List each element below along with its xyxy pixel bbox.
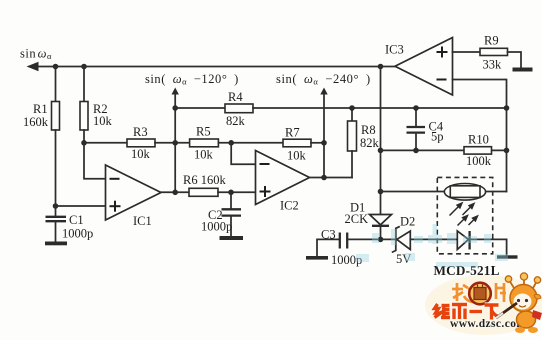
IC1 minus sign (110, 178, 120, 180)
weiku red text (435, 304, 499, 320)
IC1 plus sign (110, 205, 121, 207)
IC2 plus sign (260, 191, 271, 193)
node junction top wire / IC3 output (378, 64, 384, 70)
wire to R4 (175, 107, 225, 109)
resistor R7 (283, 139, 311, 147)
wire R6 right to IC2 + input (218, 191, 256, 193)
svg-text:33k: 33k (483, 58, 503, 72)
wire R4 right to IC3 inverting node (253, 107, 507, 109)
wire node down to IC1 - input (84, 143, 106, 179)
light arrows (450, 203, 478, 226)
svg-text:R5: R5 (196, 125, 211, 139)
node junction C4 bottom (413, 148, 419, 154)
svg-text:160k: 160k (23, 115, 49, 129)
node junction IC2 output / sin240 line (321, 175, 327, 181)
wire IC3 - input (453, 80, 507, 192)
node junction R5/R7/IC2- (228, 140, 234, 146)
svg-text:1000p: 1000p (201, 220, 232, 234)
svg-text:IC3: IC3 (385, 43, 404, 57)
wire R9 right to ground (508, 52, 522, 68)
svg-text:10k: 10k (131, 147, 151, 161)
node junction R7 right (321, 140, 327, 146)
IC3 minus sign (437, 79, 447, 81)
node sin wa output arrow (27, 62, 39, 72)
op-amp IC2 (256, 151, 310, 205)
pian char (496, 283, 506, 302)
svg-text:www.dzsc.com: www.dzsc.com (450, 318, 526, 330)
wire R5 right (218, 142, 283, 144)
node sin -120 arrow (172, 88, 179, 95)
svg-text:10k: 10k (194, 148, 214, 162)
svg-text:R10: R10 (468, 133, 489, 147)
node junction top wire / R1 (53, 64, 59, 70)
resistor R6 (189, 188, 218, 196)
svg-text:R6 160k: R6 160k (183, 173, 226, 187)
svg-text:82k: 82k (360, 136, 380, 150)
IC2 minus sign (260, 163, 270, 165)
capacitor C1 (55, 206, 57, 217)
node junction R2/R3/IC1- (81, 140, 87, 146)
svg-text:R4: R4 (228, 90, 243, 104)
svg-text:C3: C3 (321, 228, 336, 242)
wire sin -120 vertical node line (174, 94, 176, 193)
magnifier circle (469, 283, 491, 305)
wire IC3 output feedback vertical (380, 67, 382, 215)
capacitor C2 (230, 192, 232, 209)
node junction LDR left / feedback line (378, 189, 384, 195)
ground LED (497, 255, 518, 258)
svg-text:R8: R8 (361, 123, 376, 137)
zhao char (452, 283, 506, 302)
IC3 plus sign (437, 51, 448, 53)
resistor R8 (351, 108, 353, 121)
node junction R6/C2/IC2+ (228, 190, 234, 196)
wire LDR left (381, 191, 445, 193)
svg-text:10k: 10k (287, 149, 307, 163)
capacitor C3 (317, 239, 339, 256)
svg-text:R9: R9 (484, 34, 499, 48)
svg-text:D2: D2 (400, 215, 415, 229)
wire IC1 output (161, 191, 189, 193)
wire down to IC2 - input (231, 143, 255, 165)
wire R7 right to IC2 output node (311, 142, 324, 144)
node junction R10 right (504, 148, 510, 154)
op-amp IC3 (395, 38, 453, 96)
node junction C4 top (413, 105, 419, 111)
resistor R2 (80, 102, 88, 131)
node junction R1/C1/IC1+ (53, 203, 59, 209)
resistor R10 (464, 147, 492, 154)
node junction D1/C3/D2 (378, 237, 384, 243)
wire LDR right (486, 191, 507, 193)
ground C2 (220, 236, 244, 240)
capacitor C4 (415, 108, 417, 127)
ground C3 (306, 256, 328, 260)
svg-text:C1: C1 (69, 213, 84, 227)
ground R9 (513, 68, 533, 72)
wire sin -240 vertical node line (323, 94, 325, 178)
photoresistor LDR (444, 184, 485, 201)
node junction R4 left (172, 105, 178, 111)
wire R3 to R5 (155, 142, 190, 144)
resistor R3 (127, 139, 155, 147)
mascot (509, 280, 514, 288)
svg-text:IC2: IC2 (280, 199, 299, 213)
svg-text:IC1: IC1 (133, 214, 152, 228)
wire R2 top lead (83, 67, 85, 102)
LED (457, 231, 468, 250)
wire IC3 + input to R9 (453, 51, 481, 53)
resistor R4 (225, 104, 253, 113)
node junction R8 top (349, 105, 355, 111)
wire main top feedback line (33, 66, 395, 68)
wire R1 top lead (55, 67, 57, 102)
node junction feedback/C4-R10 wire (378, 148, 384, 154)
resistor R5 (190, 139, 219, 147)
wire C4 bottom / R10 left line (381, 149, 465, 151)
wire IC2 output (310, 177, 353, 179)
op-amp IC1 (106, 165, 162, 220)
resistor R1 (52, 102, 60, 131)
svg-text:R7: R7 (285, 126, 300, 140)
svg-text:sin( ωα −240° ): sin( ωα −240° ) (276, 72, 371, 87)
optocoupler dashed box MCD-521L (437, 177, 492, 253)
ground C1 (45, 242, 67, 246)
node junction IC3- / main (504, 105, 510, 111)
wire IC1 + input (56, 205, 106, 207)
node junction IC1 output (172, 190, 178, 196)
resistor R9 (480, 48, 508, 55)
cyan watermark traces (356, 224, 508, 267)
wire R1 bottom lead to IC1 + node (55, 130, 57, 206)
svg-text:R1: R1 (33, 102, 48, 116)
svg-text:5p: 5p (431, 130, 444, 144)
watermark dzsc logo (425, 273, 542, 335)
svg-text:2CK: 2CK (345, 212, 369, 226)
wire node to R3 (84, 142, 127, 144)
svg-text:100k: 100k (466, 154, 492, 168)
node junction top wire / R2 (81, 64, 87, 70)
svg-text:sin( ωα −120° ): sin( ωα −120° ) (145, 72, 239, 87)
node junction sin120 line / R3-R5 (172, 140, 178, 146)
svg-text:1000p: 1000p (62, 227, 93, 241)
wire R2 bottom lead (83, 130, 85, 143)
svg-text:10k: 10k (93, 114, 113, 128)
svg-text:82k: 82k (226, 114, 246, 128)
node sin -240 arrow (320, 88, 327, 95)
svg-text:R3: R3 (133, 125, 148, 139)
